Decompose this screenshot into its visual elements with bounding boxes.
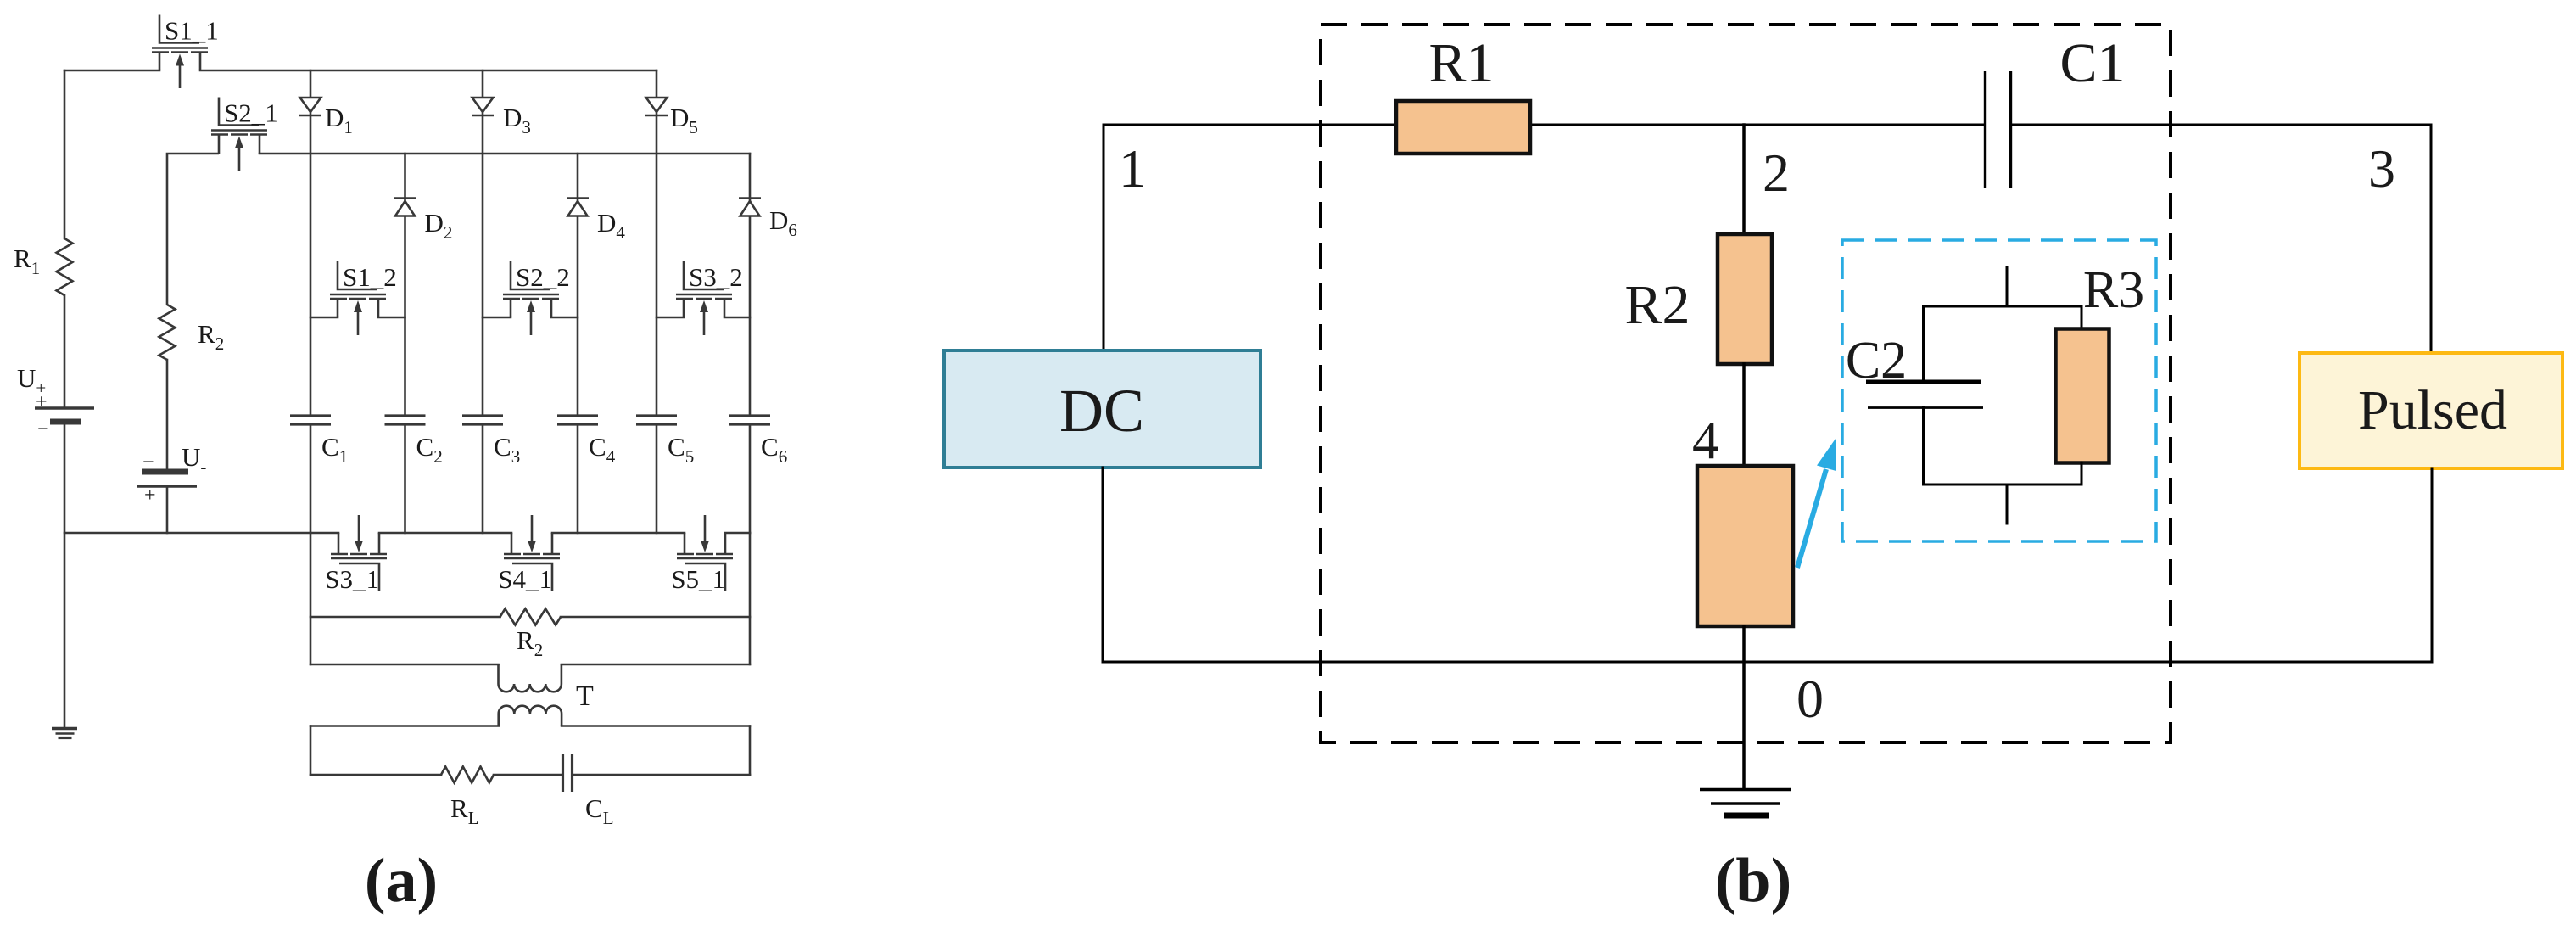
battery U- bbox=[137, 472, 197, 486]
wire: C1 bottom to bus3 bbox=[310, 424, 312, 533]
capacitor C5 bbox=[636, 416, 677, 424]
diode D4 bbox=[567, 199, 589, 216]
capacitor CL bbox=[563, 754, 573, 792]
wire: bus3 segment between S3_1 and S4_1 bbox=[379, 532, 511, 535]
ground bbox=[52, 729, 77, 738]
svg-text:4: 4 bbox=[1692, 410, 1719, 470]
wire: plasma load to ground bbox=[1742, 626, 1746, 789]
wire: C2 top lead bbox=[1922, 306, 1925, 382]
transistor S5_1 bbox=[677, 515, 733, 591]
wire: load loop bottom right bbox=[573, 774, 751, 776]
capacitor C3 bbox=[462, 416, 503, 424]
wire: column D3/C3 vertical bbox=[482, 70, 484, 416]
resistor R2 (damping) bbox=[500, 609, 562, 625]
svg-text:−: − bbox=[142, 451, 154, 473]
wire: S3_2 source stub bbox=[657, 317, 684, 319]
wire: left rail R1 to U+ battery bbox=[64, 295, 66, 408]
battery U+ bbox=[35, 408, 94, 422]
dashed outline of equivalent circuit bbox=[1321, 25, 2171, 742]
wire: left discharge vertical col1 down bbox=[310, 533, 312, 664]
wire: top stub inside cyan box bbox=[2006, 267, 2009, 306]
wire: S1_2 drain stub bbox=[378, 317, 405, 319]
wire: R2 row right segment bbox=[561, 616, 750, 619]
svg-text:1: 1 bbox=[1119, 138, 1146, 199]
diode D3 bbox=[472, 98, 494, 115]
wire: column D5/C5 vertical bbox=[656, 70, 658, 416]
wire: secondary row right bbox=[562, 725, 750, 727]
wire: node1 vertical to DC source bbox=[1103, 125, 1105, 351]
capacitor C2 bbox=[385, 416, 426, 424]
wire: R2 row left segment bbox=[310, 616, 500, 619]
svg-text:S3_2: S3_2 bbox=[689, 262, 743, 292]
svg-text:S5_1: S5_1 bbox=[671, 564, 725, 594]
resistor R1 bbox=[1396, 101, 1530, 154]
transformer T secondary winding bbox=[499, 706, 562, 726]
transistor S3_2 bbox=[676, 261, 732, 335]
transistor S2_1 bbox=[211, 98, 267, 172]
wire: node2 vertical bbox=[1742, 125, 1746, 234]
wire: S2_2 source stub bbox=[483, 317, 511, 319]
transformer T primary winding bbox=[499, 664, 562, 692]
wire: node3 vertical to Pulsed box bbox=[2430, 125, 2433, 353]
wire: top rail of C2/R3 bbox=[1924, 305, 2082, 308]
capacitor C2 bbox=[1866, 382, 1983, 408]
svg-text:S2_2: S2_2 bbox=[516, 262, 570, 292]
wire: R2 to plasma load bbox=[1742, 364, 1746, 466]
capacitor C1 bbox=[1986, 71, 2011, 188]
wire: S1_1 source to left rail bbox=[64, 70, 159, 72]
svg-text:−: − bbox=[37, 418, 49, 440]
svg-text:+: + bbox=[36, 391, 47, 413]
svg-text:+: + bbox=[144, 485, 156, 507]
wire: C3 bottom to bus3 bbox=[482, 424, 484, 533]
wire: R3 bottom lead bbox=[2081, 462, 2083, 485]
arrow pointing to plasma equivalent bbox=[1797, 439, 1836, 568]
wire: top net node1 to C1 bbox=[1104, 124, 1985, 126]
svg-text:S1_2: S1_2 bbox=[343, 262, 397, 292]
wire: DC source to bottom bus bbox=[1102, 468, 1104, 662]
wire: column D4/C4 vertical bbox=[577, 154, 579, 416]
svg-text:(a): (a) bbox=[365, 846, 438, 916]
capacitor C1 bbox=[290, 416, 331, 424]
wire: bottom rail of C2/R3 bbox=[1924, 484, 2082, 486]
svg-text:DC: DC bbox=[1059, 377, 1144, 445]
wire: bus3 left segment bbox=[64, 532, 338, 535]
wire: right discharge vertical col6 down bbox=[749, 533, 752, 664]
svg-text:S1_1: S1_1 bbox=[165, 16, 219, 46]
wire: C4 bottom to bus3 bbox=[577, 424, 579, 533]
svg-text:C2: C2 bbox=[1846, 332, 1907, 389]
wire: top net C1 to node3 bbox=[2011, 124, 2431, 126]
diode D2 bbox=[394, 199, 416, 216]
wire: Pulsed box to bottom bus bbox=[2431, 468, 2434, 662]
svg-text:(b): (b) bbox=[1715, 846, 1791, 916]
wire: bus3 right segment bbox=[725, 532, 750, 535]
svg-text:3: 3 bbox=[2368, 138, 2395, 199]
wire: bottom bus bbox=[1103, 661, 2432, 664]
diode D5 bbox=[645, 98, 668, 115]
wire: RL to CL bbox=[494, 774, 563, 776]
wire: bus3 segment between S4_1 and S5_1 bbox=[552, 532, 685, 535]
wire: load loop left vertical bbox=[310, 726, 312, 776]
transistor S3_1 bbox=[331, 515, 387, 591]
wire: column D1/C1 vertical bbox=[310, 70, 312, 416]
wire: column D6/C6 vertical bbox=[749, 154, 752, 416]
resistor R1 bbox=[57, 238, 73, 295]
wire: C2 bottom lead bbox=[1922, 407, 1925, 485]
wire: primary row left bbox=[310, 664, 499, 666]
wire: top bus from S1_1 drain to D5 column bbox=[200, 70, 657, 72]
resistor R3 bbox=[2056, 329, 2109, 463]
wire: R2 to U- battery bbox=[166, 360, 169, 472]
wire: U- battery to bottom bus bbox=[166, 486, 169, 533]
wire: bottom stub inside cyan box bbox=[2006, 485, 2009, 524]
wire: S2_2 drain stub bbox=[551, 317, 578, 319]
wire: C6 bottom to bus3 bbox=[749, 424, 752, 533]
wire: primary row right bbox=[562, 664, 750, 666]
wire: secondary row left bbox=[310, 725, 499, 727]
svg-text:0: 0 bbox=[1796, 669, 1824, 729]
wire: C2 bottom to bus3 bbox=[404, 424, 406, 533]
svg-text:C1: C1 bbox=[2059, 32, 2125, 94]
wire: column D2/C2 vertical bbox=[404, 154, 406, 416]
ground bbox=[1700, 790, 1791, 816]
wire: C5 bottom to bus3 bbox=[656, 424, 658, 533]
diode D1 bbox=[299, 98, 321, 115]
svg-text:S2_1: S2_1 bbox=[224, 98, 278, 128]
transistor S1_2 bbox=[330, 261, 386, 335]
wire: S1_2 source stub bbox=[310, 317, 338, 319]
resistor RL bbox=[441, 767, 494, 783]
resistor R2 (charge branch) bbox=[159, 305, 176, 360]
wire: U+ battery down to ground bbox=[64, 422, 66, 728]
wire: S2_1 source to R2 branch bbox=[167, 154, 219, 305]
resistor R2 bbox=[1718, 234, 1772, 364]
capacitor C4 bbox=[557, 416, 598, 424]
transistor S1_1 bbox=[152, 15, 208, 89]
svg-text:Pulsed: Pulsed bbox=[2358, 379, 2507, 441]
transistor S2_2 bbox=[503, 261, 559, 335]
wire: load loop right vertical bbox=[749, 726, 752, 776]
wire: R3 top lead bbox=[2081, 306, 2083, 329]
plasma load element bbox=[1697, 466, 1793, 626]
wire: load loop bottom left bbox=[310, 774, 441, 776]
diode D6 bbox=[739, 199, 761, 216]
DC source box bbox=[944, 350, 1260, 468]
svg-text:R3: R3 bbox=[2083, 261, 2144, 319]
svg-text:2: 2 bbox=[1763, 143, 1790, 203]
transistor S4_1 bbox=[504, 515, 560, 591]
wire: S3_2 drain stub bbox=[724, 317, 750, 319]
dashed cyan box of plasma equivalent bbox=[1842, 240, 2156, 541]
svg-text:S3_1: S3_1 bbox=[325, 564, 379, 594]
capacitor C6 bbox=[729, 416, 770, 424]
Pulsed load box bbox=[2299, 353, 2562, 468]
svg-text:R1: R1 bbox=[1428, 32, 1494, 94]
svg-text:R2: R2 bbox=[1624, 274, 1690, 336]
wire: left rail vertical (U+ branch) bbox=[64, 70, 66, 238]
svg-text:S4_1: S4_1 bbox=[498, 564, 552, 594]
svg-text:T: T bbox=[576, 681, 594, 712]
wire: bus2 from S2_1 drain to D6 column bbox=[260, 153, 750, 155]
